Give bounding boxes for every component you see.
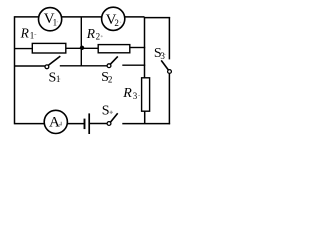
wire: right inner vertical (top bus to R3) xyxy=(144,17,146,78)
wire: resistor row middle segment xyxy=(66,47,98,49)
battery cell: long positive plate xyxy=(88,113,90,134)
svg-text:2: 2 xyxy=(108,74,113,84)
wire: far right vertical upper (S3 branch from top bus) xyxy=(168,17,170,59)
wire: battery to switch S segment xyxy=(89,123,107,125)
svg-text:2: 2 xyxy=(114,18,119,28)
wire: far right vertical lower (S3 to bottom bus) xyxy=(168,73,170,124)
wire: left vertical bus xyxy=(14,16,16,124)
label R1 xyxy=(20,25,37,40)
wire: switch row middle segment xyxy=(60,65,108,67)
wire: switch row right segment xyxy=(122,64,145,66)
svg-text:3: 3 xyxy=(160,51,165,61)
wire: ammeter to battery segment xyxy=(68,123,85,125)
wire: top bus left segment xyxy=(15,16,145,18)
label S (main switch) xyxy=(102,103,113,118)
svg-text:R: R xyxy=(122,86,132,101)
switch S2 xyxy=(107,56,118,67)
wire: resistor row right segment xyxy=(130,47,145,49)
svg-text:3: 3 xyxy=(133,91,138,101)
label S1 xyxy=(49,70,61,85)
wire: top bus right segment xyxy=(145,17,171,19)
voltmeter V2 xyxy=(102,7,125,30)
label S2 xyxy=(101,70,112,85)
switch S (main) xyxy=(107,113,118,125)
svg-text:1: 1 xyxy=(30,31,35,41)
switch S1 xyxy=(45,56,60,69)
svg-text:R: R xyxy=(20,25,30,40)
resistor R1 xyxy=(32,43,66,53)
wire: middle vertical (V1/V2 tap to R1-R2 junction) xyxy=(80,17,82,66)
svg-text:1: 1 xyxy=(53,17,58,27)
label R2 xyxy=(86,26,103,42)
label R3 xyxy=(122,86,140,101)
voltmeter V1 xyxy=(39,8,62,31)
svg-text:A: A xyxy=(49,115,60,131)
svg-text:R: R xyxy=(86,26,96,41)
battery cell: short negative plate xyxy=(84,119,86,130)
label S3 xyxy=(154,46,166,61)
svg-text:S: S xyxy=(102,103,110,118)
wire: resistor row left segment xyxy=(15,48,33,50)
svg-text:2: 2 xyxy=(96,32,101,42)
node: junction dot between R1 and R2 xyxy=(80,46,84,50)
resistor R2 xyxy=(98,45,130,53)
wire: bottom bus left segment xyxy=(15,123,45,125)
wire: R3 bottom stub xyxy=(144,111,146,124)
wire: bottom bus right segment xyxy=(122,123,170,125)
ammeter A xyxy=(44,110,67,133)
switch S3 xyxy=(161,60,171,73)
resistor R3 xyxy=(142,78,150,111)
wire: switch row left segment xyxy=(15,65,46,67)
